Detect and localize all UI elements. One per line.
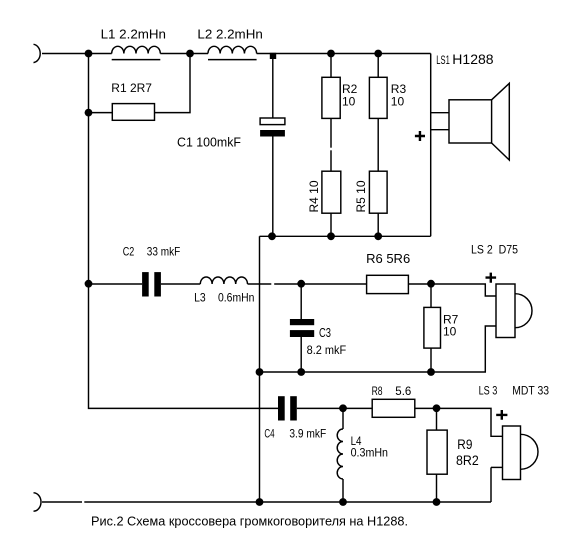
svg-text:R5 10: R5 10 bbox=[354, 180, 368, 212]
svg-text:R6 5R6: R6 5R6 bbox=[366, 251, 410, 266]
svg-text:LS1: LS1 bbox=[436, 55, 450, 67]
svg-text:LS 3: LS 3 bbox=[479, 386, 498, 398]
svg-text:8.2 mkF: 8.2 mkF bbox=[307, 343, 347, 357]
svg-text:0.6mHn: 0.6mHn bbox=[218, 290, 254, 304]
svg-text:LS 2 D75: LS 2 D75 bbox=[471, 245, 518, 257]
svg-text:H1288: H1288 bbox=[452, 51, 493, 67]
svg-text:L3: L3 bbox=[194, 290, 206, 304]
svg-text:8R2: 8R2 bbox=[456, 452, 479, 468]
svg-text:L2 2.2mHn: L2 2.2mHn bbox=[197, 26, 262, 41]
svg-text:10: 10 bbox=[391, 94, 405, 108]
svg-text:C1 100mkF: C1 100mkF bbox=[177, 134, 241, 149]
svg-text:R4 10: R4 10 bbox=[307, 180, 321, 212]
svg-text:R1 2R7: R1 2R7 bbox=[111, 81, 152, 95]
svg-text:C2: C2 bbox=[123, 244, 135, 258]
svg-text:R9: R9 bbox=[457, 436, 472, 452]
svg-text:10: 10 bbox=[443, 324, 457, 338]
svg-text:Рис.2 Схема кроссовера громког: Рис.2 Схема кроссовера громкоговорителя … bbox=[91, 513, 408, 528]
svg-text:MDT 33: MDT 33 bbox=[512, 386, 549, 398]
svg-text:0.3mHn: 0.3mHn bbox=[351, 445, 388, 459]
svg-text:10: 10 bbox=[342, 94, 356, 108]
svg-text:R8: R8 bbox=[372, 386, 383, 398]
svg-text:L1 2.2mHn: L1 2.2mHn bbox=[101, 26, 166, 41]
svg-text:5.6: 5.6 bbox=[395, 386, 411, 398]
svg-text:33 mkF: 33 mkF bbox=[147, 244, 180, 258]
svg-text:C3: C3 bbox=[319, 325, 331, 340]
svg-text:C4: C4 bbox=[264, 426, 274, 440]
svg-text:3.9 mkF: 3.9 mkF bbox=[289, 426, 326, 440]
